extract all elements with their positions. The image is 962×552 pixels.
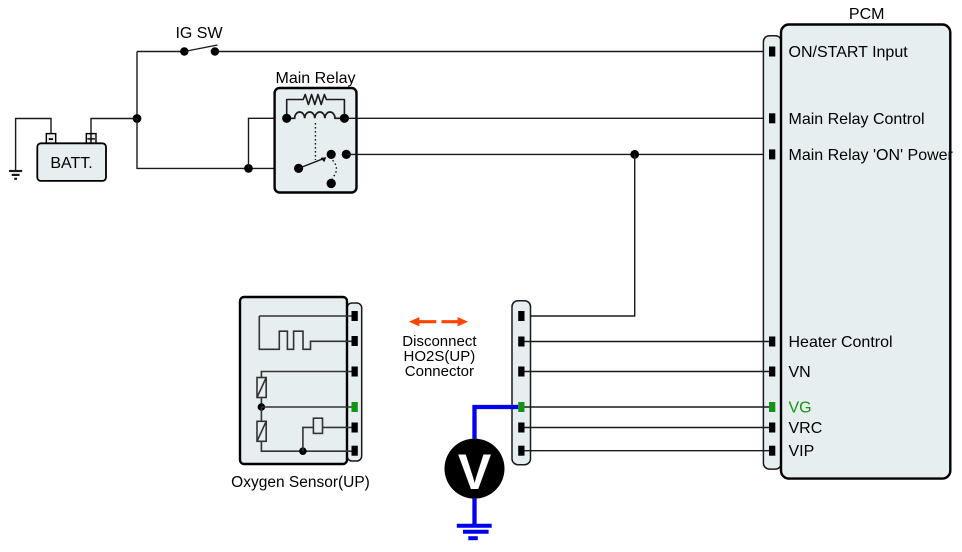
- wire connector to PCM Heater Control: [525, 341, 770, 343]
- svg-text:BATT.: BATT.: [50, 155, 92, 172]
- sensor pin 6: [352, 446, 358, 456]
- voltmeter V: [445, 439, 505, 500]
- svg-text:Main Relay 'ON' Power: Main Relay 'ON' Power: [789, 147, 954, 164]
- label Disconnect: [402, 333, 477, 350]
- wire connector to PCM VG: [525, 406, 770, 408]
- label Heater Control: [789, 334, 893, 351]
- node battery positive junction: [133, 114, 142, 123]
- PCM box U1: [781, 25, 950, 479]
- wire sensor bottom rail: [261, 441, 351, 451]
- connector pin 5: [518, 423, 524, 433]
- sensor pin 5: [352, 423, 358, 433]
- label Main Relay 'ON' Power: [789, 147, 954, 164]
- connector pin 4 green VG: [518, 402, 524, 412]
- pin VRC: [769, 423, 775, 433]
- connector pin 6: [518, 446, 524, 456]
- pin VN: [769, 367, 775, 377]
- label Main Relay: [275, 70, 355, 87]
- svg-text:V: V: [458, 444, 492, 500]
- wire connector to PCM VRC: [525, 427, 770, 429]
- svg-text:IG SW: IG SW: [175, 25, 223, 42]
- inductor relay coil: [282, 112, 349, 123]
- sensor pin 4 green VG: [352, 402, 358, 412]
- svg-text:Main Relay Control: Main Relay Control: [789, 111, 925, 128]
- wire battery junction down and right to relay: [137, 119, 299, 169]
- sensor pin 1: [352, 311, 358, 321]
- svg-text:Oxygen Sensor(UP): Oxygen Sensor(UP): [231, 474, 370, 491]
- wire IG SW left segment: [137, 51, 181, 53]
- oxygen sensor connector strip: [347, 303, 362, 461]
- PCM connector strip: [763, 36, 781, 469]
- wire battery + terminal up to junction: [91, 119, 137, 134]
- label VN: [789, 364, 811, 381]
- resistor relay shunt: [287, 95, 345, 119]
- wire node down to lower resistor: [260, 407, 262, 421]
- switch IG SW: [180, 45, 219, 56]
- wire battery+ to IG SW vertical: [136, 52, 138, 119]
- pin VG green: [769, 402, 775, 412]
- harness connector strip: [512, 301, 531, 465]
- wire battery - terminal to ground: [16, 119, 51, 171]
- label VG: [789, 400, 812, 417]
- wire node to green pin: [261, 406, 351, 408]
- wire sensor pulse waveform: [259, 316, 351, 349]
- svg-text:Connector: Connector: [405, 363, 474, 380]
- sensor pin 2: [352, 336, 358, 346]
- pin Main Relay Control: [769, 113, 775, 123]
- wire voltmeter probe blue: [475, 407, 519, 439]
- label Main Relay Control: [789, 111, 925, 128]
- svg-text:Heater Control: Heater Control: [789, 334, 893, 351]
- arrow disconnect right: [442, 317, 469, 326]
- label VRC: [789, 420, 823, 437]
- relay switch contacts: [294, 150, 351, 188]
- relay box K1: [275, 88, 357, 193]
- wire branch up to relay coil: [249, 118, 287, 168]
- wire element to pin 5: [323, 426, 352, 428]
- svg-text:PCM: PCM: [849, 6, 885, 23]
- wire IG SW to PCM ON/START Input: [215, 51, 769, 53]
- node sensor VG: [258, 403, 266, 411]
- wire resistor to node: [260, 398, 262, 408]
- connector pin 1: [518, 311, 524, 321]
- label VIP: [789, 443, 815, 460]
- connector pin 3: [518, 367, 524, 377]
- svg-text:Main Relay: Main Relay: [275, 70, 355, 87]
- wire power branch down to connector pin 1: [527, 154, 635, 316]
- node relay branch junction: [244, 164, 253, 173]
- label PCM: [849, 6, 885, 23]
- svg-text:VRC: VRC: [789, 420, 823, 437]
- wire node up to element: [303, 427, 314, 451]
- battery BATT.: [37, 134, 106, 181]
- ground battery: [9, 171, 22, 179]
- oxygen sensor box: [240, 297, 347, 464]
- pin ON/START Input: [769, 47, 775, 57]
- svg-text:VG: VG: [789, 400, 812, 417]
- arrow disconnect left: [409, 317, 436, 326]
- resistor sensor upper: [257, 378, 266, 398]
- label IG SW: [175, 25, 223, 42]
- wire relay actuator dotted link: [314, 123, 316, 160]
- wire connector to PCM VN: [525, 371, 770, 373]
- wire sensor heater top: [261, 372, 351, 378]
- wire sensor signal top: [259, 315, 351, 317]
- wire relay coil to PCM Main Relay Control: [344, 117, 769, 119]
- label Connector: [405, 363, 474, 380]
- wire relay output to PCM Main Relay ON Power: [346, 153, 769, 155]
- resistor sensor lower: [257, 421, 266, 441]
- node sensor bottom: [299, 447, 307, 455]
- component sensor element box: [313, 418, 322, 433]
- ground voltmeter: [457, 526, 492, 539]
- pin Heater Control: [769, 337, 775, 347]
- pin VIP: [769, 446, 775, 456]
- wire connector to PCM VIP: [525, 450, 770, 452]
- svg-text:VN: VN: [789, 364, 811, 381]
- sensor pin 3: [352, 367, 358, 377]
- label HO2S(UP): [404, 348, 476, 365]
- svg-text:ON/START Input: ON/START Input: [789, 44, 909, 61]
- pin Main Relay ON Power: [769, 149, 775, 159]
- wire voltmeter to ground blue: [472, 499, 476, 524]
- label ON/START Input: [789, 44, 909, 61]
- label Oxygen Sensor(UP): [231, 474, 370, 491]
- node power branch to connector: [630, 150, 639, 159]
- svg-text:VIP: VIP: [789, 443, 815, 460]
- connector pin 2: [518, 337, 524, 347]
